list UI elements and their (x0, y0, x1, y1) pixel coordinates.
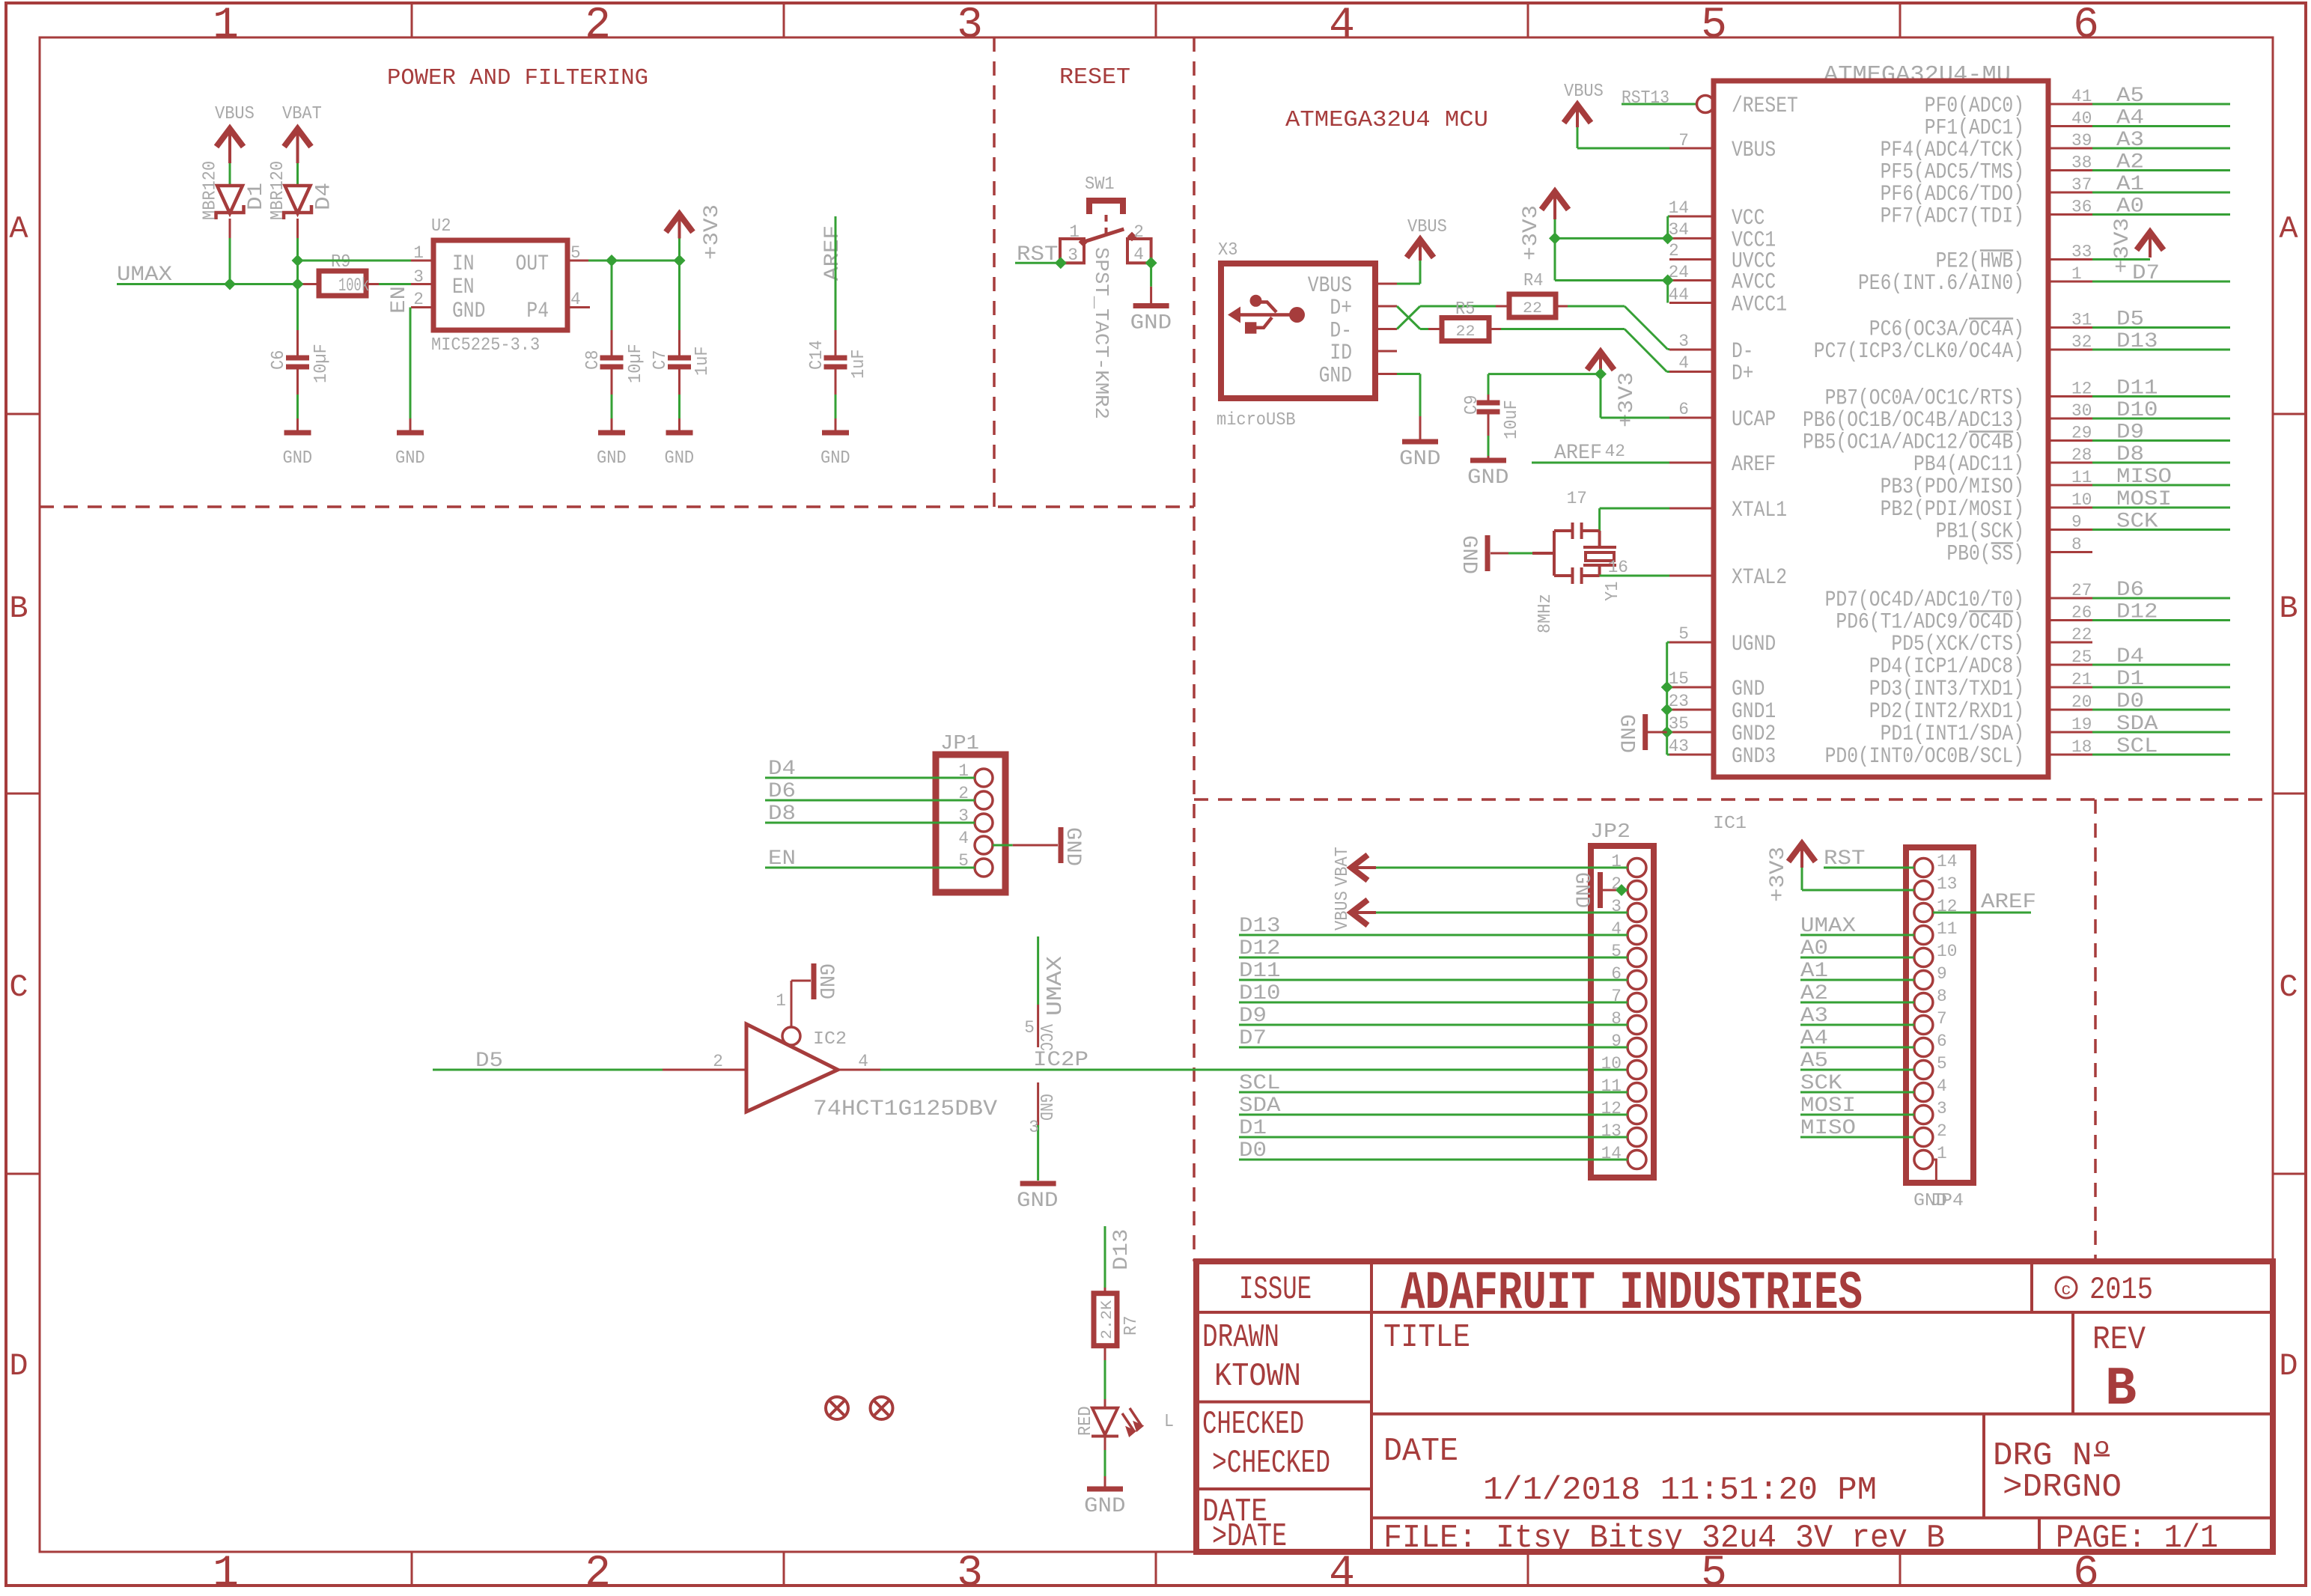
svg-text:D13: D13 (1110, 1229, 1133, 1271)
svg-text:6: 6 (1678, 400, 1689, 419)
svg-text:5: 5 (1937, 1054, 1947, 1073)
svg-text:1: 1 (213, 1550, 239, 1592)
svg-text:C14: C14 (807, 340, 827, 370)
svg-text:RST13: RST13 (1622, 88, 1669, 109)
svg-text:microUSB: microUSB (1217, 410, 1296, 430)
svg-text:12: 12 (2071, 380, 2092, 399)
svg-text:ISSUE: ISSUE (1239, 1271, 1312, 1309)
svg-text:IC2: IC2 (813, 1029, 847, 1050)
svg-text:6: 6 (1937, 1032, 1947, 1051)
svg-text:D4: D4 (313, 183, 336, 210)
svg-text:44: 44 (1669, 285, 1689, 305)
svg-text:ATMEGA32U4 MCU: ATMEGA32U4 MCU (1285, 107, 1488, 133)
svg-text:VCC: VCC (1035, 1024, 1055, 1051)
svg-text:MBR120: MBR120 (268, 161, 288, 220)
svg-text:C9: C9 (1462, 395, 1482, 415)
svg-text:10: 10 (1937, 942, 1957, 961)
svg-text:PB3(PDO/MISO): PB3(PDO/MISO) (1881, 475, 2024, 500)
svg-text:D: D (2279, 1348, 2298, 1384)
svg-text:25: 25 (2071, 648, 2092, 667)
svg-text:RESET: RESET (1059, 64, 1130, 91)
svg-text:7: 7 (1937, 1009, 1947, 1029)
svg-text:A4: A4 (2116, 107, 2144, 130)
svg-text:ATMEGA32U4-MU: ATMEGA32U4-MU (1824, 62, 2011, 88)
svg-text:A2: A2 (2116, 151, 2144, 174)
svg-text:D10: D10 (2116, 399, 2158, 422)
svg-text:A: A (9, 211, 28, 247)
svg-text:GND: GND (1035, 1094, 1055, 1121)
svg-text:1: 1 (213, 1, 239, 50)
svg-text:4: 4 (1133, 245, 1144, 264)
svg-text:3: 3 (1937, 1099, 1947, 1118)
svg-text:8MHz: 8MHz (1535, 594, 1556, 633)
svg-text:8: 8 (1937, 987, 1947, 1006)
svg-text:EN: EN (452, 275, 475, 300)
svg-text:B: B (2105, 1359, 2137, 1420)
svg-text:AVCC: AVCC (1732, 270, 1776, 296)
svg-text:43: 43 (1669, 737, 1689, 756)
svg-text:40: 40 (2071, 109, 2092, 129)
svg-text:16: 16 (1608, 558, 1628, 577)
svg-text:14: 14 (1937, 852, 1957, 871)
svg-text:10uF: 10uF (1502, 400, 1522, 439)
svg-text:1/1/2018 11:51:20 PM: 1/1/2018 11:51:20 PM (1483, 1472, 1877, 1509)
svg-text:+3V3: +3V3 (1767, 847, 1790, 902)
svg-text:POWER AND FILTERING: POWER AND FILTERING (387, 65, 648, 91)
svg-text:VBAT: VBAT (1333, 847, 1353, 886)
svg-text:MISO: MISO (2116, 466, 2172, 489)
svg-text:22: 22 (2071, 625, 2092, 645)
svg-text:+3V3: +3V3 (701, 204, 724, 260)
svg-text:GND: GND (283, 448, 313, 469)
svg-text:5: 5 (1701, 1, 1727, 50)
svg-text:A0: A0 (2116, 195, 2144, 219)
svg-text:A: A (2279, 211, 2298, 247)
svg-text:5: 5 (1024, 1018, 1035, 1038)
svg-text:VBUS: VBUS (1308, 273, 1352, 299)
svg-text:C6: C6 (269, 350, 289, 370)
svg-text:U2: U2 (431, 216, 451, 237)
svg-text:SCK: SCK (2116, 511, 2158, 534)
svg-text:3: 3 (957, 1550, 983, 1592)
svg-text:D6: D6 (2116, 579, 2144, 602)
svg-text:PF7(ADC7(TDI): PF7(ADC7(TDI) (1881, 204, 2024, 230)
svg-text:C: C (2279, 969, 2298, 1005)
svg-text:3: 3 (1068, 246, 1078, 265)
svg-text:UGND: UGND (1732, 632, 1776, 657)
svg-text:VBUS: VBUS (1732, 138, 1776, 163)
svg-text:MOSI: MOSI (2116, 488, 2172, 511)
svg-text:31: 31 (2071, 311, 2092, 330)
svg-text:UCAP: UCAP (1732, 407, 1776, 433)
svg-text:42: 42 (1605, 442, 1625, 461)
svg-text:4: 4 (1678, 353, 1689, 373)
svg-text:TITLE: TITLE (1383, 1319, 1470, 1356)
svg-text:PD1(INT1/SDA): PD1(INT1/SDA) (1881, 722, 2024, 747)
svg-text:3: 3 (413, 267, 424, 287)
svg-text:JP4: JP4 (1930, 1191, 1964, 1211)
svg-text:D+: D+ (1732, 362, 1754, 387)
svg-text:C8: C8 (583, 350, 603, 370)
svg-text:1: 1 (1937, 1144, 1947, 1163)
svg-text:GND: GND (1457, 535, 1480, 574)
svg-text:VBUS: VBUS (1564, 82, 1604, 102)
svg-text:A1: A1 (2116, 173, 2144, 196)
svg-text:AREF: AREF (1554, 442, 1602, 465)
svg-text:GND: GND (1467, 466, 1509, 490)
svg-text:ADAFRUIT INDUSTRIES: ADAFRUIT INDUSTRIES (1401, 1263, 1863, 1324)
svg-text:7: 7 (1678, 131, 1689, 150)
svg-text:1uF: 1uF (849, 349, 869, 379)
svg-text:11: 11 (1937, 919, 1957, 939)
svg-text:1: 1 (1069, 222, 1080, 242)
svg-text:D8: D8 (2116, 443, 2144, 466)
svg-text:/RESET: /RESET (1732, 94, 1798, 119)
svg-text:14: 14 (1669, 198, 1689, 218)
svg-text:XTAL2: XTAL2 (1732, 565, 1787, 591)
svg-text:2: 2 (1669, 241, 1679, 261)
svg-text:VBUS: VBUS (1407, 217, 1447, 237)
svg-text:B: B (9, 591, 28, 627)
svg-text:XTAL1: XTAL1 (1732, 498, 1787, 523)
svg-text:39: 39 (2071, 131, 2092, 150)
svg-text:2: 2 (585, 1550, 611, 1592)
svg-text:GND: GND (814, 963, 837, 999)
svg-text:IN: IN (452, 252, 475, 277)
svg-text:UMAX: UMAX (1043, 956, 1068, 1016)
svg-text:GND2: GND2 (1732, 722, 1776, 747)
svg-text:2015: 2015 (2089, 1272, 2153, 1308)
svg-text:GND: GND (1570, 872, 1593, 908)
svg-text:A5: A5 (2116, 85, 2144, 108)
svg-text:GND: GND (1615, 714, 1638, 753)
svg-text:GND: GND (1084, 1495, 1126, 1518)
svg-text:DATE: DATE (1383, 1433, 1458, 1470)
svg-text:PB1(SCK): PB1(SCK) (1936, 520, 2024, 545)
svg-text:c: c (2061, 1281, 2071, 1300)
svg-text:D9: D9 (2116, 421, 2144, 445)
svg-text:GND: GND (1732, 677, 1765, 702)
svg-text:D4: D4 (2116, 645, 2144, 668)
svg-text:GND: GND (452, 299, 485, 324)
svg-text:1uF: 1uF (692, 346, 713, 376)
svg-text:PB4(ADC11): PB4(ADC11) (1913, 452, 2024, 478)
svg-text:SDA: SDA (2116, 713, 2158, 736)
svg-text:MBR120: MBR120 (201, 161, 221, 220)
svg-text:GND: GND (1017, 1190, 1059, 1213)
svg-text:AREF: AREF (821, 225, 844, 281)
svg-text:GND: GND (1130, 312, 1172, 335)
svg-text:D0: D0 (2116, 690, 2144, 713)
svg-text:37: 37 (2071, 175, 2092, 195)
svg-text:GND: GND (1319, 364, 1352, 389)
svg-text:D: D (9, 1348, 28, 1384)
svg-text:SW1: SW1 (1085, 174, 1115, 195)
svg-text:3: 3 (957, 1, 983, 50)
svg-text:P4: P4 (526, 299, 549, 324)
svg-text:CHECKED: CHECKED (1202, 1406, 1304, 1443)
svg-text:17: 17 (1567, 489, 1587, 508)
svg-text:A3: A3 (2116, 129, 2144, 152)
svg-text:4: 4 (1329, 1550, 1355, 1592)
svg-text:REV: REV (2092, 1321, 2146, 1359)
svg-text:D5: D5 (2116, 308, 2144, 332)
svg-text:9: 9 (2071, 513, 2082, 532)
svg-text:GND: GND (1061, 827, 1084, 866)
svg-text:>CHECKED: >CHECKED (1212, 1445, 1330, 1482)
svg-text:9: 9 (1937, 964, 1947, 984)
svg-text:PD4(ICP1/ADC8): PD4(ICP1/ADC8) (1869, 654, 2024, 680)
svg-text:PAGE: 1/1: PAGE: 1/1 (2056, 1520, 2218, 1557)
svg-text:38: 38 (2071, 153, 2092, 173)
svg-text:MIC5225-3.3: MIC5225-3.3 (431, 335, 540, 356)
svg-text:+3V3: +3V3 (2111, 218, 2134, 273)
svg-text:10µF: 10µF (311, 344, 332, 383)
svg-text:11: 11 (2071, 468, 2092, 487)
svg-text:19: 19 (2071, 715, 2092, 734)
svg-text:13: 13 (1937, 874, 1957, 894)
svg-text:4: 4 (1329, 1, 1355, 50)
svg-text:GND: GND (820, 448, 850, 469)
svg-text:PE6(INT.6/AIN0): PE6(INT.6/AIN0) (1858, 271, 2024, 296)
svg-text:PD5(XCK/CTS): PD5(XCK/CTS) (1891, 632, 2024, 657)
svg-text:EN: EN (388, 286, 411, 314)
svg-text:22: 22 (1456, 323, 1476, 341)
svg-text:32: 32 (2071, 332, 2092, 352)
svg-text:5: 5 (1678, 624, 1689, 644)
svg-text:KTOWN: KTOWN (1214, 1358, 1301, 1395)
svg-text:4: 4 (958, 829, 969, 848)
svg-text:D13: D13 (2116, 330, 2158, 353)
svg-text:DRAWN: DRAWN (1202, 1319, 1279, 1356)
svg-text:26: 26 (2071, 603, 2092, 623)
svg-text:D11: D11 (2116, 377, 2158, 400)
svg-text:22: 22 (1523, 300, 1542, 317)
svg-text:L: L (1164, 1412, 1174, 1432)
svg-text:FILE: Itsy Bitsy 32u4 3V rev B: FILE: Itsy Bitsy 32u4 3V rev B (1383, 1520, 1945, 1557)
svg-text:PC7(ICP3/CLK0/OC4A): PC7(ICP3/CLK0/OC4A) (1814, 339, 2024, 365)
svg-text:1: 1 (413, 243, 424, 263)
svg-text:10: 10 (2071, 490, 2092, 510)
svg-text:PD3(INT3/TXD1): PD3(INT3/TXD1) (1869, 677, 2024, 702)
svg-text:36: 36 (2071, 198, 2092, 217)
svg-text:X3: X3 (1218, 240, 1237, 261)
svg-text:D1: D1 (245, 183, 268, 210)
svg-text:GND: GND (395, 448, 425, 469)
svg-text:JP2: JP2 (1590, 821, 1631, 844)
svg-text:18: 18 (2071, 737, 2092, 757)
svg-text:21: 21 (2071, 670, 2092, 689)
svg-text:R7: R7 (1121, 1316, 1142, 1335)
svg-text:IC2P: IC2P (1033, 1049, 1088, 1072)
svg-text:AREF: AREF (1981, 891, 2036, 914)
svg-text:2.2K: 2.2K (1099, 1300, 1116, 1339)
svg-text:1: 1 (776, 991, 786, 1011)
svg-text:6: 6 (2073, 1, 2099, 50)
svg-text:+3V3: +3V3 (1616, 372, 1639, 427)
svg-text:RED: RED (1076, 1406, 1096, 1436)
svg-text:C: C (9, 969, 28, 1005)
svg-text:GND: GND (665, 448, 695, 469)
svg-text:GND: GND (597, 448, 627, 469)
svg-text:AVCC1: AVCC1 (1732, 293, 1787, 318)
svg-text:8: 8 (2071, 535, 2082, 555)
svg-text:27: 27 (2071, 581, 2092, 600)
svg-text:33: 33 (2071, 243, 2092, 262)
svg-text:2: 2 (713, 1052, 723, 1071)
svg-text:OUT: OUT (516, 252, 549, 277)
svg-text:VBUS: VBUS (215, 104, 255, 124)
svg-text:ID: ID (1330, 341, 1352, 366)
svg-text:20: 20 (2071, 692, 2092, 712)
svg-text:+3V3: +3V3 (1520, 205, 1543, 261)
svg-text:SPST_TACT-KMR2: SPST_TACT-KMR2 (1090, 247, 1112, 419)
svg-text:74HCT1G125DBV: 74HCT1G125DBV (813, 1097, 997, 1122)
svg-text:AREF: AREF (1732, 452, 1776, 478)
svg-text:>DATE: >DATE (1212, 1518, 1287, 1556)
svg-text:GND3: GND3 (1732, 744, 1776, 770)
svg-text:2: 2 (585, 1, 611, 50)
svg-text:2: 2 (1937, 1121, 1947, 1141)
svg-text:2: 2 (1133, 222, 1144, 242)
svg-text:SCL: SCL (2116, 735, 2158, 758)
svg-text:28: 28 (2071, 445, 2092, 465)
svg-text:10: 10 (1601, 1054, 1622, 1073)
svg-text:VBAT: VBAT (282, 104, 322, 124)
svg-text:B: B (2279, 591, 2298, 627)
svg-text:C7: C7 (651, 350, 671, 370)
svg-text:30: 30 (2071, 401, 2092, 421)
svg-text:Y1: Y1 (1603, 582, 1623, 601)
svg-text:D1: D1 (2116, 668, 2144, 691)
svg-text:1: 1 (2071, 264, 2082, 284)
svg-text:R4: R4 (1523, 271, 1543, 291)
svg-text:PD2(INT2/RXD1): PD2(INT2/RXD1) (1869, 699, 2024, 725)
svg-text:4: 4 (1937, 1076, 1947, 1096)
svg-text:10µF: 10µF (626, 344, 646, 383)
svg-text:>DRGNO: >DRGNO (2003, 1469, 2122, 1506)
svg-text:D+: D+ (1330, 296, 1352, 321)
svg-text:PB0(SS): PB0(SS) (1946, 542, 2024, 567)
svg-text:100k: 100k (338, 275, 369, 296)
svg-text:3: 3 (1678, 332, 1689, 351)
svg-text:4: 4 (858, 1052, 868, 1071)
svg-text:PD0(INT0/OC0B/SCL): PD0(INT0/OC0B/SCL) (1825, 744, 2024, 770)
svg-text:41: 41 (2071, 87, 2092, 106)
svg-text:VBUS: VBUS (1333, 891, 1353, 931)
svg-text:D12: D12 (2116, 601, 2158, 624)
svg-text:29: 29 (2071, 424, 2092, 443)
svg-text:IC1: IC1 (1713, 814, 1747, 834)
svg-text:GND: GND (1399, 448, 1441, 471)
svg-text:D7: D7 (2132, 262, 2160, 285)
svg-text:GND1: GND1 (1732, 699, 1776, 725)
